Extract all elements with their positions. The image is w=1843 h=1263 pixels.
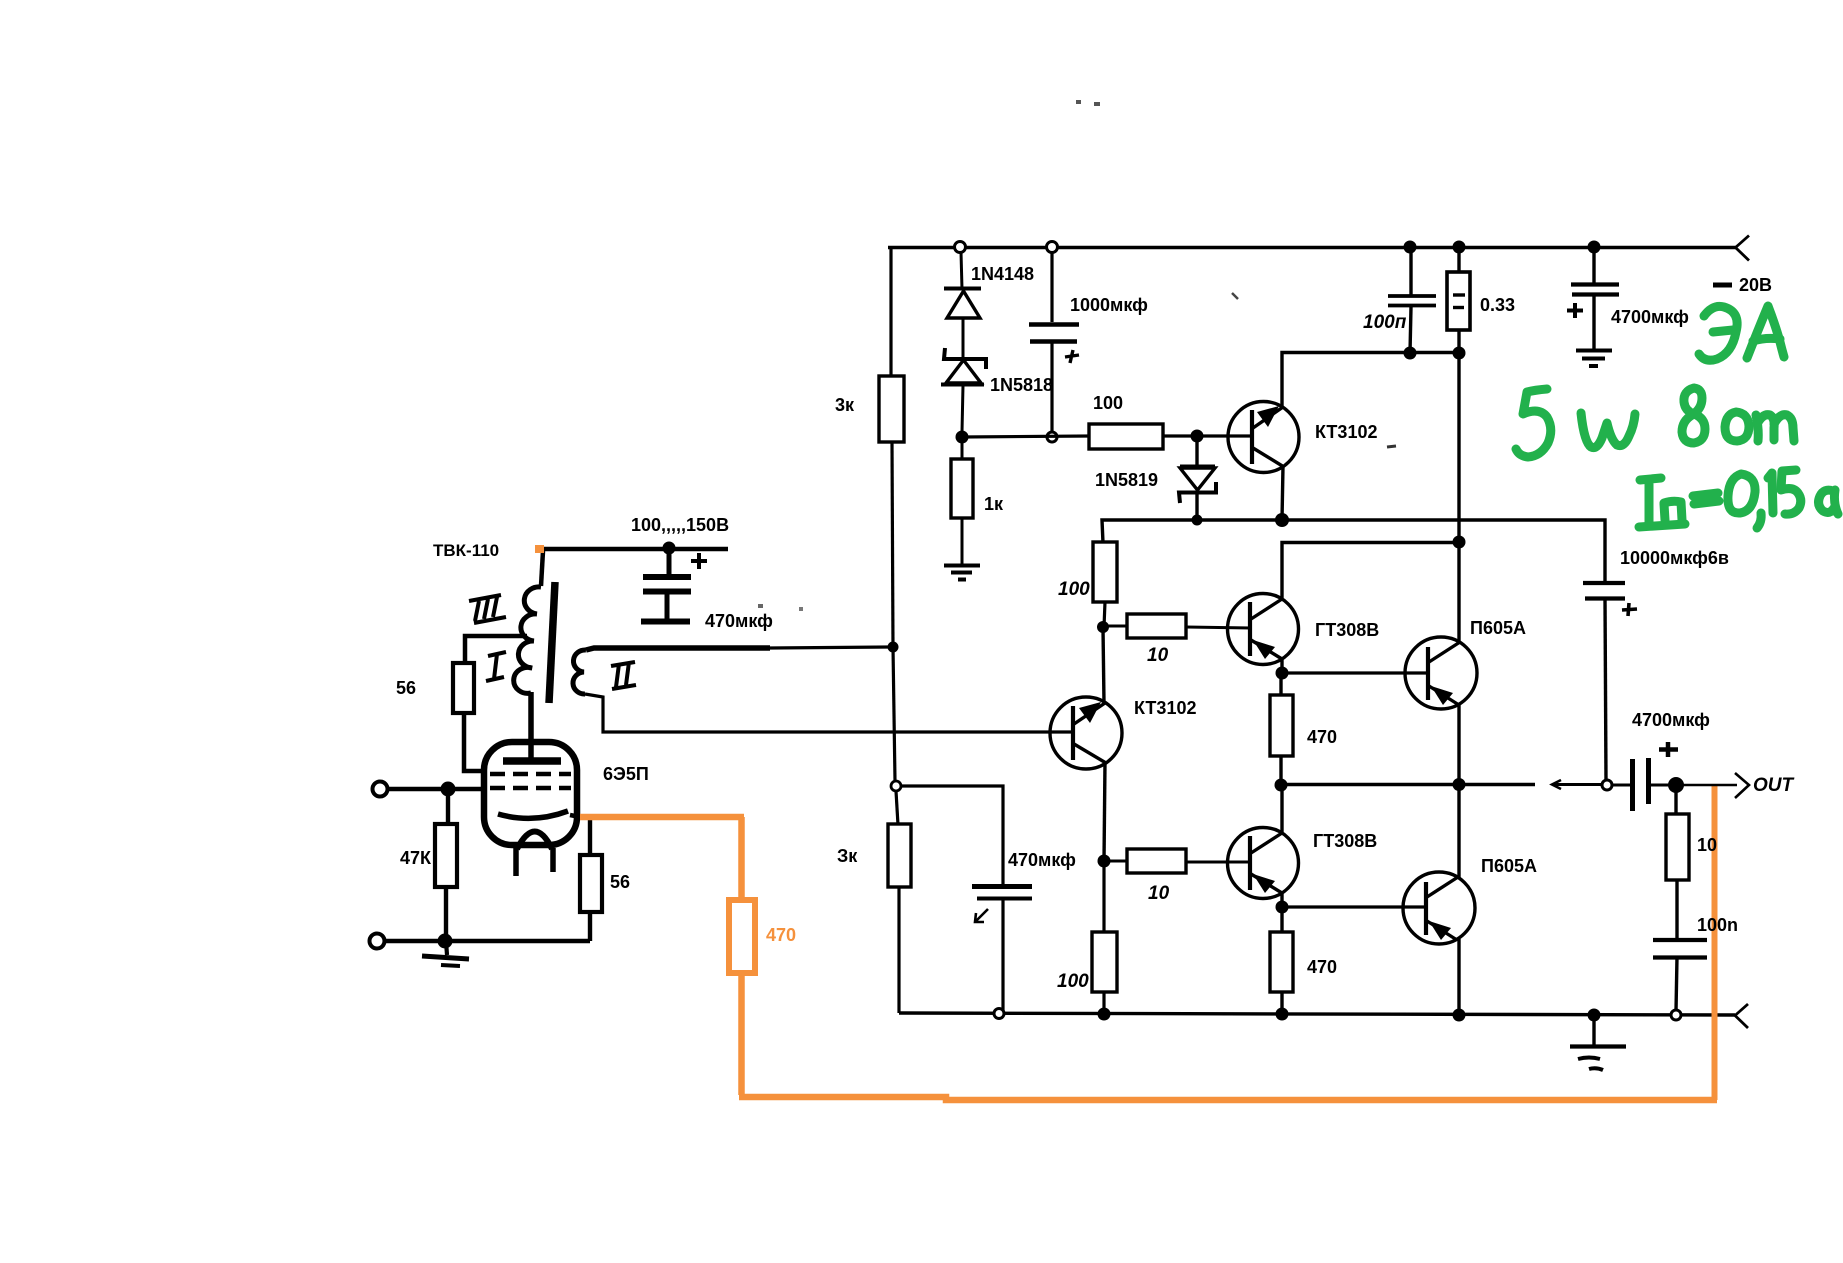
svg-text:470: 470: [1307, 957, 1337, 977]
node on 150V rail: [663, 542, 676, 555]
svg-text:ГТ308В: ГТ308В: [1313, 831, 1377, 851]
node output: [1668, 777, 1684, 793]
wire orange feedback bottom run: [739, 1097, 1717, 1100]
node ring junction at 3k lower top: [891, 781, 901, 791]
node 1N5819 to rail: [1192, 515, 1203, 526]
node emitter/base junction top: [1276, 667, 1289, 680]
svg-text:20В: 20В: [1739, 275, 1772, 295]
wire 100 to node: [1104, 602, 1105, 627]
node input to 47K: [441, 782, 456, 797]
orange paint speck at transformer top: [535, 545, 544, 553]
svg-text:10000мкф6в: 10000мкф6в: [1620, 548, 1729, 568]
wire anode supply rail 100-150V: [541, 547, 728, 552]
input terminal 2: [370, 934, 385, 949]
wire continues down to ring junction: [893, 647, 895, 781]
ground below 4700mkf: [1576, 349, 1612, 353]
node bottom rail below P605A: [1453, 1009, 1466, 1022]
wire input bottom line: [385, 939, 590, 943]
wire node to 10 (lower base): [1104, 860, 1128, 863]
resistor 3k (lower): [888, 824, 911, 887]
svg-text:470мкф: 470мкф: [1008, 850, 1076, 870]
resistor 100 (driver collector top): [1093, 542, 1117, 602]
resistor 3k (upper): [879, 376, 904, 442]
ground below 1k: [944, 564, 980, 568]
ground input: [446, 941, 447, 955]
svg-text:56: 56: [396, 678, 416, 698]
transistor Q6 P605A (bottom): [1403, 872, 1475, 944]
wire to OUT: [1676, 784, 1737, 786]
label winding II: [611, 662, 636, 689]
svg-text:470: 470: [1307, 727, 1337, 747]
wire top supply rail -20V: [888, 246, 1736, 250]
svg-text:ГТ308В: ГТ308В: [1315, 620, 1379, 640]
node bottom rail below 100: [1098, 1008, 1111, 1021]
handwriting 5w 8om (green): [1516, 389, 1551, 457]
capacitor 10000mkf6v: [1583, 581, 1625, 585]
wire node to 47K: [446, 789, 450, 825]
wire secondary top lead to node: [770, 647, 893, 648]
wire ring to 1N4148: [961, 252, 962, 289]
tube anode plate: [528, 692, 534, 761]
resistor 56 (cathode): [580, 855, 602, 912]
svg-text:1N5818: 1N5818: [990, 375, 1053, 395]
wire node to P605A base: [1282, 671, 1429, 674]
handwriting In=0,15a (green): [1639, 478, 1685, 527]
node at GT308V collector line: [1453, 536, 1466, 549]
diode 1N5818 (schottky): [944, 348, 986, 369]
svg-text:470мкф: 470мкф: [705, 611, 773, 631]
svg-text:10: 10: [1147, 645, 1169, 666]
stray ink specks: [1076, 100, 1081, 104]
svg-text:Зк: Зк: [837, 846, 858, 866]
transformer T1 primary top lead: [541, 551, 543, 586]
wire orange feedback down to bottom run: [738, 973, 745, 1095]
svg-text:10: 10: [1697, 835, 1717, 855]
transistor Q5 GT308V (bottom): [1228, 828, 1299, 899]
node base/1N5819: [1191, 430, 1204, 443]
wire from 3k down to transformer node: [892, 442, 893, 648]
terminal arrow bottom right: [1735, 1004, 1748, 1028]
tube cathode arc: [498, 811, 568, 818]
transistor Q3 KT3102 (driver middle): [1050, 697, 1122, 769]
ground bottom right: [1592, 1015, 1595, 1045]
wire mid rail segment with arrow: [1552, 780, 1561, 789]
wire 10 to GT308V base: [1186, 627, 1251, 628]
wire KT3102 driver collector up: [1103, 628, 1104, 703]
node ground on bottom rail: [1588, 1009, 1601, 1022]
svg-text:КТ3102: КТ3102: [1134, 698, 1196, 718]
wire GT308V bottom collector up to mid rail: [1280, 786, 1283, 832]
wire KT3102 emitter down to bias rail: [1282, 466, 1283, 520]
node ring bypass cap bottom: [994, 1009, 1004, 1019]
capacitor 4700mkf (output coupling): [1612, 784, 1630, 787]
wire 1N5818 to node: [962, 385, 963, 432]
tube heater: [517, 832, 552, 850]
transistor Q1 KT3102 (top): [1228, 402, 1299, 473]
wire 100 lower to bottom rail: [1102, 992, 1105, 1014]
capacitor 100n (zobel): [1653, 938, 1707, 942]
wire ring to 3k lower: [896, 791, 898, 825]
wire winding III tap to 56 resistor: [465, 636, 527, 664]
resistor 10 (upper base): [1127, 614, 1186, 638]
svg-text:4700мкф: 4700мкф: [1632, 710, 1710, 730]
terminal arrow top right (-20V input): [1736, 236, 1750, 261]
wire node down to 100 (lower): [1102, 866, 1105, 933]
wire GT308V collector up to node line: [1282, 543, 1459, 599]
vacuum tube 6E5P envelope: [484, 742, 577, 845]
wire secondary top lead (thick): [586, 648, 770, 650]
node diode chain bottom: [956, 431, 969, 444]
svg-text:П605А: П605А: [1470, 618, 1526, 638]
resistor 47K: [435, 824, 457, 887]
svg-text:470: 470: [766, 925, 796, 945]
svg-text:100n: 100n: [1697, 915, 1738, 935]
wire GT308V bottom emitter down: [1280, 892, 1283, 907]
node mid rail left: [1275, 779, 1288, 792]
wire orange feedback down: [738, 817, 745, 901]
node ring on top rail (diode chain): [955, 242, 966, 253]
resistor 10 (zobel): [1674, 790, 1677, 815]
svg-text:6Э5П: 6Э5П: [603, 764, 649, 784]
svg-text:1N5819: 1N5819: [1095, 470, 1158, 490]
label -20В: [1713, 283, 1732, 288]
resistor 100 (lower): [1092, 932, 1117, 992]
transformer T1 primary winding: [514, 587, 541, 693]
svg-text:100: 100: [1058, 579, 1090, 600]
wire bottom input up to 56 cathode resistor: [588, 912, 592, 941]
wire 1k to ground: [961, 518, 964, 565]
wire node to 1k: [961, 437, 964, 460]
resistor 1k: [951, 459, 973, 518]
node mid rail right bus: [1453, 778, 1466, 791]
svg-text:56: 56: [610, 872, 630, 892]
svg-text:100: 100: [1093, 393, 1123, 413]
tube grid g2 (dashed): [490, 786, 571, 791]
node ring 1000mkf bottom: [1047, 432, 1057, 442]
wire KT3102 driver emitter down: [1104, 762, 1105, 861]
wire P605A bottom emitter down to rail: [1457, 939, 1460, 1015]
svg-text:47К: 47К: [400, 848, 432, 868]
node driver emitter: [1098, 855, 1111, 868]
node ring on top rail (1000mkf): [1047, 242, 1058, 253]
transistor Q2 GT308V (top): [1228, 594, 1299, 665]
node junction secondary to 3k chain: [888, 642, 899, 653]
node input bottom: [438, 934, 453, 949]
transformer T1 core: [549, 582, 555, 703]
wire KT3102 collector up and right: [1282, 353, 1459, 408]
node driver collector: [1097, 621, 1109, 633]
wire 3k lower to bottom rail corner: [897, 887, 900, 1013]
transistor Q4 P605A (top): [1405, 637, 1477, 709]
wire GT308V emitter down: [1280, 658, 1283, 673]
svg-text:100п: 100п: [1363, 312, 1407, 333]
svg-text:1000мкф: 1000мкф: [1070, 295, 1148, 315]
svg-text:3к: 3к: [835, 395, 855, 415]
svg-text:1N4148: 1N4148: [971, 264, 1034, 284]
resistor 10 (lower base): [1127, 849, 1186, 873]
resistor 470 (bottom): [1280, 912, 1283, 933]
capacitor 470mkf (bypass) wire from ring: [900, 786, 1003, 885]
resistor 470 (top): [1279, 673, 1282, 696]
svg-text:П605А: П605А: [1481, 856, 1537, 876]
svg-text:ТВК-110: ТВК-110: [433, 541, 499, 560]
capacitor 4700mkf (supply): [1588, 241, 1601, 254]
wire secondary bottom lead: [585, 694, 1074, 732]
wire 100 to KT3102 base: [1163, 434, 1253, 437]
wire vertical main right bus down: [1457, 353, 1460, 543]
node ring at 10000mkf bottom: [1602, 780, 1612, 790]
svg-text:100,,,,,150В: 100,,,,,150В: [631, 515, 729, 535]
wire collector line nodes: [1404, 347, 1417, 360]
label winding III: [469, 595, 506, 623]
wire 56 cathode up to cathode node: [588, 817, 592, 855]
capacitor 470mkf (anode supply): [667, 549, 672, 574]
svg-text:КТ3102: КТ3102: [1315, 422, 1377, 442]
wire mid rail (output node line): [1281, 783, 1535, 786]
wire P605A top collector: [1457, 542, 1460, 643]
node bottom rail below 470: [1276, 1008, 1289, 1021]
label winding I: [486, 652, 506, 681]
input terminal 1: [373, 782, 388, 797]
resistor 100 (horizontal): [1089, 424, 1163, 449]
node ring zobel bottom: [1671, 1010, 1681, 1020]
svg-text:100: 100: [1057, 971, 1089, 992]
svg-text:4700мкф: 4700мкф: [1611, 307, 1689, 327]
wire bias line node to 100 resistor: [962, 436, 1090, 437]
capacitor 1000mkf: [1050, 252, 1053, 322]
terminal arrow OUT: [1735, 773, 1749, 798]
wire P605A bottom collector up to mid rail: [1457, 785, 1460, 878]
handwriting EA (green): [1516, 306, 1838, 528]
wire 1N4148 to 1N5818: [962, 318, 965, 357]
wire 47K to bottom input wire: [444, 887, 448, 941]
svg-text:0.33: 0.33: [1480, 295, 1515, 315]
resistor 0.33: [1453, 241, 1466, 254]
svg-text:10: 10: [1148, 883, 1170, 904]
node emitter/base junction bottom: [1276, 901, 1289, 914]
wire bias rail (y=520): [1102, 520, 1605, 581]
wire node to P605A bottom base: [1282, 905, 1427, 908]
wire 10 to GT308V bottom base: [1186, 861, 1251, 864]
capacitor 100p: [1404, 241, 1417, 254]
wire left vertical from top rail to 3k resistor chain: [889, 246, 892, 377]
resistor 470 feedback (orange): [729, 900, 755, 973]
wire 56 resistor down to tube grid2: [464, 713, 487, 771]
node emitter on bias rail: [1275, 513, 1289, 527]
resistor 56 (screen grid): [453, 663, 474, 713]
wire P605A top emitter down to mid rail: [1457, 704, 1460, 785]
svg-text:OUT: OUT: [1753, 775, 1795, 796]
wire orange feedback right riser: [1712, 786, 1718, 1100]
transformer T1 secondary winding II: [573, 650, 586, 694]
wire cathode to feedback (orange): [570, 815, 580, 817]
wire node to 10 resistor: [1103, 625, 1128, 628]
diode 1N4148: [944, 287, 981, 291]
tube grid g1 (dashed): [490, 772, 571, 777]
diode 1N5819 (schottky): [1195, 436, 1198, 466]
wire input to grid: [388, 787, 487, 791]
svg-text:1к: 1к: [984, 494, 1004, 514]
wire bottom ground rail: [899, 1013, 1735, 1015]
